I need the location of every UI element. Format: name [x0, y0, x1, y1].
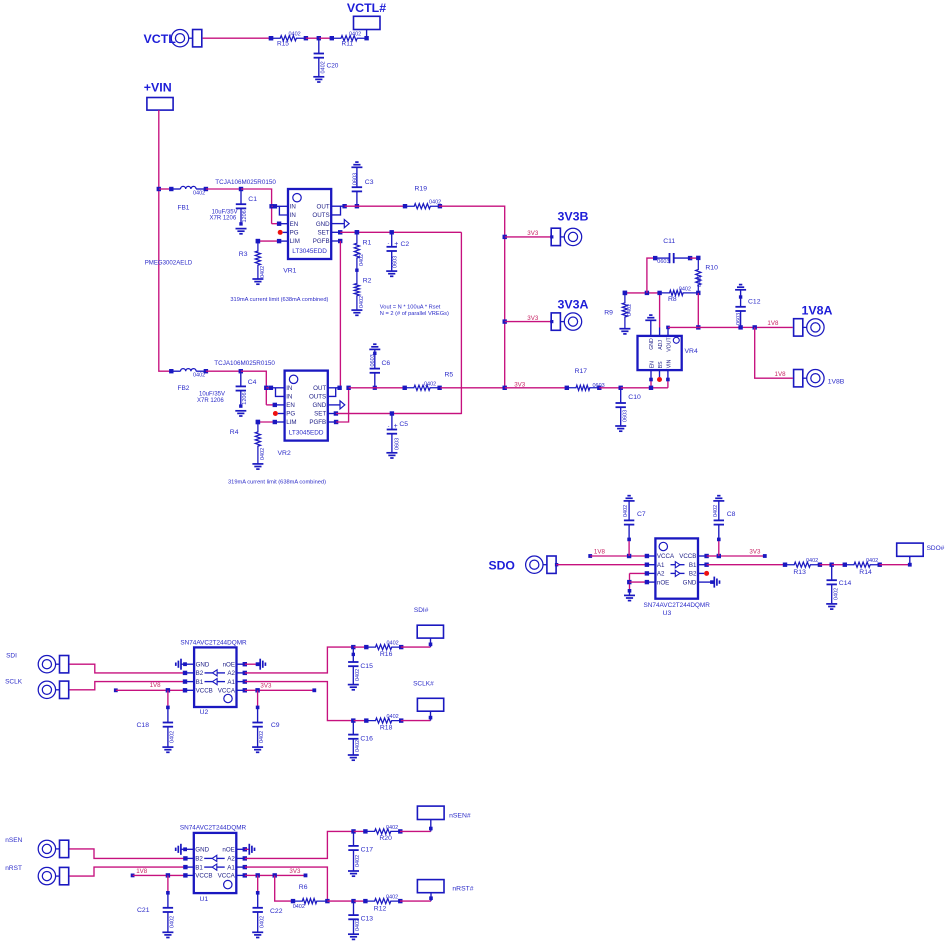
svg-text:0402: 0402	[170, 731, 176, 743]
svg-text:1V8: 1V8	[767, 320, 779, 327]
resistor R5	[403, 371, 454, 390]
wire SET tie down to VR2	[336, 232, 461, 413]
capacitor C22	[253, 875, 283, 932]
svg-text:C6: C6	[382, 360, 391, 367]
connector J SDI	[38, 656, 68, 673]
wire U3 B1 to R13	[698, 563, 785, 567]
svg-text:3V3: 3V3	[527, 315, 539, 322]
svg-text:C14: C14	[839, 580, 852, 587]
capacitor C10	[616, 388, 641, 426]
svg-text:A1: A1	[227, 679, 235, 686]
svg-text:LT3045EDD: LT3045EDD	[292, 248, 327, 255]
VR4 VOUT pin wire	[666, 326, 670, 336]
svg-text:GND: GND	[649, 338, 655, 350]
svg-text:10uF/35V: 10uF/35V	[212, 209, 238, 215]
svg-text:R8: R8	[668, 296, 677, 303]
svg-text:C13: C13	[361, 916, 374, 923]
svg-text:C11: C11	[663, 238, 675, 245]
svg-text:OUT: OUT	[313, 385, 326, 392]
svg-text:+VIN: +VIN	[144, 81, 172, 95]
wire C4 to VR2 IN/EN	[241, 371, 266, 405]
svg-text:R3: R3	[239, 251, 248, 258]
port SDI#	[414, 607, 444, 638]
wire rail to FB1	[159, 187, 174, 191]
svg-text:0402: 0402	[806, 558, 818, 564]
net label 3V3 (U2)	[260, 683, 272, 690]
junction R8/R10 node	[696, 291, 700, 295]
VR2 GND pin arrow	[328, 401, 345, 409]
wire U1 A1 down to R12 row	[236, 865, 327, 901]
junction rail at FB1 row	[157, 187, 161, 191]
U1 nOE to ground	[236, 847, 249, 851]
svg-text:U1: U1	[199, 896, 208, 903]
junction C4 node	[239, 369, 243, 373]
svg-text:3V3: 3V3	[749, 548, 761, 555]
net label 1V8 (U3)	[594, 548, 606, 555]
junction C18 node	[166, 688, 170, 692]
svg-text:GND: GND	[195, 847, 209, 854]
net label 1V8 (1V8B)	[775, 371, 787, 378]
ground for C15	[348, 685, 359, 690]
ground above C12	[735, 285, 746, 290]
svg-text:1V8: 1V8	[136, 868, 148, 875]
label SDO	[489, 558, 515, 572]
wire U1 VCCA 3V3	[236, 873, 307, 877]
wire C13 to R12	[354, 900, 366, 902]
wire +VIN rail	[159, 110, 172, 371]
wire R17 to C10	[599, 387, 620, 389]
svg-text:VR1: VR1	[283, 267, 296, 274]
capacitor C4	[197, 371, 257, 408]
label U2 part number	[180, 639, 247, 646]
svg-text:GND: GND	[196, 661, 210, 668]
svg-text:nSEN: nSEN	[5, 837, 22, 844]
resistor R18	[364, 714, 403, 731]
label TCJA106M025R0150 (C4 value)	[214, 360, 275, 367]
wire VR2 OUT/OUTS tie	[328, 386, 342, 397]
svg-text:VCCB: VCCB	[196, 688, 213, 695]
svg-text:ADJ: ADJ	[658, 340, 664, 350]
svg-text:0402: 0402	[359, 254, 365, 266]
wire R19 to 3V3 rail	[439, 206, 505, 388]
ground for C10	[615, 426, 626, 431]
capacitor C20	[314, 38, 339, 77]
U2 GND pin	[181, 662, 194, 666]
svg-text:3V3: 3V3	[260, 683, 272, 690]
junction C17 node	[351, 829, 355, 833]
VR1 GND pin arrow	[331, 220, 349, 228]
svg-text:R18: R18	[380, 724, 393, 731]
wire R14 to SDO# port	[879, 556, 911, 566]
net label 1V8 (U1)	[136, 868, 148, 875]
port nRST#	[417, 880, 473, 893]
svg-text:3V3: 3V3	[527, 230, 539, 237]
svg-text:C17: C17	[361, 846, 374, 853]
svg-text:1206: 1206	[242, 210, 248, 222]
capacitor C21	[137, 875, 176, 932]
wire C1 to VR1 IN/EN	[241, 189, 272, 224]
svg-text:R20: R20	[379, 835, 392, 842]
ground for C2	[386, 271, 397, 276]
svg-text:nOE: nOE	[657, 579, 669, 586]
wire VOUT to 1V8A	[668, 326, 793, 328]
svg-text:R12: R12	[374, 905, 387, 912]
label U2	[200, 709, 209, 716]
resistor R17	[565, 368, 605, 391]
svg-text:0402: 0402	[623, 505, 629, 517]
wire to VR1 IN pins	[272, 204, 288, 215]
wire rail to 3V3B	[505, 235, 554, 238]
svg-text:0402: 0402	[260, 448, 266, 460]
svg-text:0402: 0402	[866, 558, 878, 564]
svg-text:VCCB: VCCB	[679, 553, 696, 560]
wire R18 to SCLK# port	[401, 712, 433, 721]
label Vout formula	[380, 304, 449, 317]
U1 GND pin	[181, 847, 194, 851]
ferrite bead FB1	[171, 186, 208, 211]
junction C11 branch	[645, 291, 649, 295]
svg-text:B2: B2	[196, 670, 204, 677]
label VR4	[685, 348, 698, 355]
junction C13 node	[351, 899, 355, 903]
svg-text:3V3B: 3V3B	[558, 210, 589, 224]
wire C11 to R10 top	[690, 257, 698, 259]
svg-text:0402: 0402	[424, 381, 436, 387]
wire nRST to U1 B1	[69, 865, 193, 876]
wire ADJ row	[625, 292, 662, 294]
junction C14 node	[830, 563, 834, 567]
junction 1V8B branch	[753, 325, 757, 329]
wire C15 to R16	[353, 646, 366, 648]
wire U2 VCCA 3V3	[237, 688, 317, 692]
capacitor C14	[827, 565, 852, 604]
ground for C16	[348, 755, 359, 760]
regulator IC VR4	[638, 336, 682, 370]
wire VR1 OUT/OUTS tie	[331, 204, 347, 215]
svg-text:C15: C15	[360, 663, 373, 670]
buffer IC U1 SN74AVC2T244DQMR	[194, 833, 237, 893]
junction R1 node	[355, 230, 359, 234]
capacitor C15	[348, 647, 373, 685]
label TCJA106M025R0150 (C1 value)	[215, 179, 276, 186]
svg-text:EN: EN	[650, 361, 656, 368]
label nSEN	[5, 837, 22, 844]
svg-text:0603: 0603	[736, 313, 742, 325]
svg-text:N = 2 (# of parallel VREGs): N = 2 (# of parallel VREGs)	[380, 311, 449, 317]
capacitor C5	[387, 414, 409, 453]
svg-text:C4: C4	[248, 379, 257, 386]
svg-text:GND: GND	[316, 221, 330, 228]
svg-text:0603: 0603	[370, 354, 376, 366]
svg-text:U2: U2	[200, 709, 209, 716]
resistor R15	[269, 32, 308, 48]
wire U3 VCCB 3V3	[698, 554, 767, 558]
svg-text:R19: R19	[415, 185, 428, 192]
ground left of U1 GND	[176, 844, 181, 855]
svg-text:IN: IN	[286, 385, 292, 392]
svg-text:+: +	[394, 423, 398, 430]
svg-text:R2: R2	[363, 277, 372, 284]
U3 GND pin to ground	[698, 580, 714, 584]
svg-text:1206: 1206	[242, 392, 248, 404]
wire SDI to U2 B2	[69, 664, 194, 675]
net label 3V3 (3V3A)	[527, 315, 539, 322]
svg-text:SDO#: SDO#	[927, 545, 945, 552]
svg-text:U3: U3	[663, 610, 672, 617]
svg-text:PG: PG	[286, 411, 295, 418]
junction C9 node	[255, 688, 259, 692]
wire VR1 PGFB to 3V3 row	[339, 241, 341, 388]
VR4 ADJ pin wire	[659, 293, 661, 336]
svg-text:VCCA: VCCA	[657, 553, 675, 560]
label nRST	[5, 865, 22, 872]
junction C15 node	[351, 645, 355, 649]
svg-text:C9: C9	[271, 722, 280, 729]
wire R3 to VR1 LIM pin	[256, 239, 288, 243]
svg-text:IN: IN	[286, 394, 292, 401]
junction rail at 3V3A	[503, 319, 507, 323]
svg-text:VCCA: VCCA	[218, 873, 236, 880]
svg-text:R9: R9	[604, 309, 613, 316]
buffer IC U3 SN74AVC2T244DQMR	[655, 538, 698, 598]
capacitor C2	[387, 232, 410, 271]
ground for R9	[619, 329, 630, 334]
svg-text:R1: R1	[363, 240, 372, 247]
label VR1 current limit note	[230, 297, 328, 303]
svg-text:X7R 1206: X7R 1206	[210, 216, 237, 222]
wire SCLK to U2 B1	[69, 679, 194, 689]
svg-text:0402: 0402	[359, 296, 365, 308]
svg-text:C20: C20	[327, 63, 339, 70]
wire R12 row	[327, 900, 353, 902]
no-connect VR2 PG pin	[273, 411, 285, 416]
svg-text:R15: R15	[277, 40, 289, 47]
port SDO#	[897, 543, 945, 558]
connector J VCTL	[144, 30, 202, 47]
ground for C18	[162, 747, 173, 752]
svg-text:0603: 0603	[352, 173, 358, 185]
svg-text:C10: C10	[628, 394, 641, 401]
ground for C17	[348, 871, 359, 876]
label SCLK	[5, 678, 23, 685]
svg-text:VOUT: VOUT	[667, 337, 673, 352]
resistor R20	[363, 825, 402, 842]
ground for C4	[235, 411, 246, 416]
svg-text:EN: EN	[290, 221, 299, 228]
junction VR4 EN riser	[649, 386, 653, 390]
svg-text:C7: C7	[637, 511, 646, 518]
svg-text:FB1: FB1	[178, 205, 190, 212]
svg-text:319mA current limit (638mA com: 319mA current limit (638mA combined)	[230, 297, 328, 303]
VR2 SET pin stub	[328, 411, 338, 415]
resistor R8	[662, 286, 699, 303]
wire VR2 SET row	[336, 413, 462, 415]
junction C22 node	[256, 873, 260, 877]
resistor R2	[354, 270, 371, 310]
junction R9 top	[623, 291, 627, 295]
svg-text:0402: 0402	[320, 61, 326, 73]
svg-text:C16: C16	[360, 735, 373, 742]
resistor R16	[364, 641, 403, 658]
junction PGFB tie at 3V3 row	[346, 386, 350, 390]
ground for R4	[252, 464, 263, 469]
svg-text:VCCA: VCCA	[218, 688, 236, 695]
label PMEG3002AELD	[145, 260, 193, 267]
svg-text:PGFB: PGFB	[309, 419, 326, 426]
svg-text:1V8: 1V8	[775, 371, 787, 378]
port VCTL#	[347, 1, 386, 40]
connector J nSEN	[38, 840, 68, 857]
resistor R13	[783, 558, 822, 576]
ground above C7	[624, 496, 635, 501]
ground for R2	[351, 310, 362, 315]
junction 3V3 row at rail	[503, 386, 507, 390]
svg-text:C3: C3	[365, 179, 374, 186]
wire 3V3 row to R17	[505, 387, 567, 389]
wire R15 to junction	[306, 37, 319, 39]
svg-text:B2: B2	[195, 856, 203, 863]
svg-text:0402: 0402	[260, 266, 266, 278]
svg-text:0603: 0603	[395, 438, 401, 450]
wire FB1 to C1	[206, 188, 241, 190]
label VR2	[278, 450, 291, 457]
connector J 3V3B	[551, 210, 588, 246]
ground for C9	[252, 747, 263, 752]
svg-text:0402: 0402	[713, 505, 719, 517]
svg-text:SDI: SDI	[6, 652, 17, 659]
wire R13 to C14	[820, 564, 832, 566]
ground right of U3 GND	[714, 577, 719, 588]
svg-text:R16: R16	[380, 651, 393, 658]
svg-text:SCLK#: SCLK#	[413, 681, 434, 688]
svg-text:0402: 0402	[386, 825, 398, 831]
svg-text:GND: GND	[312, 402, 326, 409]
svg-text:1V8A: 1V8A	[802, 303, 833, 317]
svg-text:0402: 0402	[833, 588, 839, 600]
junction C2 node	[390, 230, 394, 234]
svg-text:1V8: 1V8	[594, 548, 606, 555]
svg-text:0402: 0402	[679, 286, 691, 292]
svg-text:OUTS: OUTS	[312, 212, 329, 219]
net label 1V8 (1V8A)	[767, 320, 779, 327]
svg-text:C2: C2	[401, 241, 410, 248]
svg-text:R17: R17	[575, 368, 588, 375]
net label 1V8 (U2)	[150, 682, 162, 689]
svg-text:SN74AVC2T244DQMR: SN74AVC2T244DQMR	[180, 639, 247, 646]
svg-text:nRST: nRST	[5, 865, 22, 872]
wire U2 A1 to R18 row	[237, 679, 354, 720]
svg-text:VCTL: VCTL	[144, 32, 177, 46]
wire to VR2 IN pins	[266, 386, 284, 397]
svg-text:VIN: VIN	[667, 359, 673, 368]
wire to 1V8B	[755, 327, 793, 378]
ground for C21	[162, 932, 173, 937]
svg-text:EN: EN	[286, 402, 295, 409]
svg-text:nSEN#: nSEN#	[449, 813, 471, 820]
port nSEN#	[417, 806, 470, 820]
svg-text:SN74AVC2T244DQMR: SN74AVC2T244DQMR	[180, 825, 247, 832]
ground for C20	[313, 77, 324, 82]
svg-text:SET: SET	[318, 230, 330, 237]
VR4 EN pin	[649, 370, 653, 381]
junction C10 node	[619, 386, 623, 390]
label U3 part number	[644, 602, 711, 609]
svg-text:VCCB: VCCB	[195, 873, 212, 880]
svg-text:BS: BS	[658, 361, 664, 368]
svg-text:nOE: nOE	[222, 847, 234, 854]
no-connect VR1 PG pin	[278, 230, 288, 235]
resistor R4	[230, 420, 266, 464]
capacitor C6	[370, 349, 391, 390]
junction C16 node	[351, 718, 355, 722]
junction C21 node	[166, 873, 170, 877]
label VR2 current limit note	[228, 480, 326, 486]
svg-text:0402: 0402	[293, 904, 305, 910]
no-connect VR4 BS pin	[657, 370, 662, 382]
svg-text:0603: 0603	[622, 410, 628, 422]
wire VR2 OUT to R5	[349, 387, 405, 389]
capacitor C13	[348, 901, 373, 934]
wire C14 to R14	[832, 564, 845, 566]
port SCLK#	[413, 681, 444, 712]
wire R6 branch down	[275, 875, 295, 903]
svg-text:C18: C18	[137, 722, 150, 729]
connector J SCLK	[38, 681, 68, 698]
ground above C8	[713, 496, 724, 501]
VR1 PGFB pin stub	[331, 239, 342, 243]
svg-text:0603: 0603	[657, 259, 669, 265]
svg-text:A2: A2	[657, 571, 665, 578]
wire 1V8 to U3 VCCA	[588, 554, 655, 558]
svg-text:PMEG3002AELD: PMEG3002AELD	[145, 260, 193, 267]
regulator IC VR2 LT3045EDD	[285, 371, 328, 441]
svg-text:R4: R4	[230, 429, 239, 436]
ground right of U2 nOE	[260, 659, 265, 670]
svg-text:LT3045EDD: LT3045EDD	[289, 429, 324, 436]
resistor R10	[696, 256, 718, 293]
VR4 GND pin to ground	[650, 320, 652, 336]
U2 nOE to ground	[237, 662, 260, 666]
net label 3V3 (row)	[514, 381, 526, 388]
svg-text:319mA current limit (638mA com: 319mA current limit (638mA combined)	[228, 480, 326, 486]
ground above C6	[369, 344, 380, 349]
svg-text:0402: 0402	[386, 895, 398, 901]
svg-text:0603: 0603	[392, 256, 398, 268]
svg-text:C22: C22	[270, 908, 283, 915]
svg-text:C21: C21	[137, 907, 150, 914]
svg-text:SDI#: SDI#	[414, 607, 429, 614]
svg-text:0402: 0402	[387, 714, 399, 720]
junction C5 node	[390, 411, 394, 415]
svg-text:0402: 0402	[627, 304, 633, 316]
svg-text:C5: C5	[399, 421, 408, 428]
net label 3V3 (3V3B)	[527, 230, 539, 237]
capacitor C3	[352, 167, 374, 208]
connector J 1V8A	[794, 303, 833, 336]
svg-text:B1: B1	[689, 562, 697, 569]
svg-text:C12: C12	[748, 299, 761, 306]
capacitor C17	[348, 831, 373, 871]
svg-text:+: +	[394, 241, 398, 248]
svg-text:SN74AVC2T244DQMR: SN74AVC2T244DQMR	[644, 602, 711, 609]
ground for R3	[252, 279, 263, 284]
svg-text:Vout = N * 100uA * Rset: Vout = N * 100uA * Rset	[380, 304, 441, 310]
svg-text:OUT: OUT	[317, 203, 330, 210]
wire U2 A2 to R16 row	[237, 647, 354, 675]
ground above C3	[351, 162, 362, 167]
svg-text:TCJA106M025R0150: TCJA106M025R0150	[214, 360, 275, 367]
capacitor C1	[210, 189, 258, 226]
